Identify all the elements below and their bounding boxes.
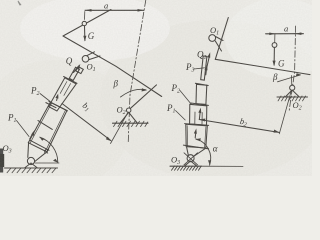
inner wall lines of outer tube (right) — [186, 126, 188, 147]
scan dark edge blob bottom-left — [0, 149, 3, 173]
clevis cross lines O3 (right) — [184, 153, 198, 165]
force P1 arrow inside outer tube (left) — [30, 132, 34, 139]
extension line from a down to G point (left) — [84, 12, 86, 20]
force G arrow (left) — [84, 26, 86, 41]
angle alpha arc (left) — [40, 137, 58, 162]
pivot circle O1 (left) — [82, 56, 89, 63]
stage-3 top cap (right) — [195, 83, 208, 85]
internal piston cross-line mid (left) — [38, 121, 52, 130]
taper to pivot (right) — [187, 147, 189, 156]
force P2 arrow inside stage-2 (left) — [57, 97, 58, 101]
inner wall lines inside stage-2 (right) — [194, 112, 196, 124]
link O2 to boom (right) — [290, 76, 292, 86]
angle alpha arc (right) — [196, 139, 211, 165]
load point circle G (left) — [82, 21, 86, 25]
dimension a (left) — [85, 9, 144, 11]
stage-2 top cap (left) — [64, 77, 77, 84]
scan shading patches — [100, 20, 320, 180]
piston rod (right) — [201, 56, 207, 80]
support triangle O3 (left) — [25, 163, 38, 168]
support triangle O2 (right) — [285, 90, 299, 97]
internal head cross-line near bottom (left) — [30, 140, 49, 150]
load point circle G (right) — [272, 43, 277, 48]
perpendicular foot line from O2 (left) — [111, 113, 128, 144]
force Q1 arrow (right) — [206, 57, 209, 71]
boom line (right) — [215, 59, 310, 74]
bracket O1 to mast (right) — [216, 37, 224, 41]
pivot circle O2 (right) — [290, 85, 295, 90]
vertical dash-dot axis through O2 (left) — [128, 0, 146, 143]
alpha baseline (right) — [202, 165, 244, 167]
rod clevis (left) — [76, 67, 84, 74]
taper to pivot (left) — [27, 142, 30, 157]
stage-2 tube (left) — [49, 78, 77, 111]
ground hatching O3 (right) — [172, 166, 202, 170]
telescopic cylinder (left): outer tube (converging to pivot) — [28, 102, 67, 152]
support triangle O2 (left) — [120, 112, 137, 123]
leader P2 (left) — [40, 94, 50, 102]
leader P1 (left) — [17, 121, 30, 137]
force P2 arrow inside stage-2 (right) — [198, 111, 201, 120]
dimension b1 (left) — [62, 104, 111, 141]
piston rod (left) — [69, 67, 79, 80]
mast line (right) — [215, 18, 228, 60]
bracket O1 to boom (left) — [87, 52, 95, 56]
stage-2 tube (right) — [190, 104, 207, 125]
stage-2 top cap (right) — [191, 103, 209, 105]
inner wall lines of outer tube (left) — [30, 103, 52, 143]
leader P3 (right) — [194, 68, 205, 69]
ground line O2 (left) — [113, 122, 149, 124]
internal piston cross-line at cap (left) — [46, 103, 56, 108]
force P3 arrow inside rod (right) — [205, 68, 208, 75]
rod extension visible inside stage-2 (left) — [60, 82, 67, 94]
force P1 arrow inside outer tube (right) — [194, 132, 197, 138]
outer tube top cap (left) — [49, 101, 68, 111]
ground line O3 (left) — [5, 167, 58, 169]
perpendicular strut from O2 (right) — [279, 90, 291, 134]
ground line O3 (right) — [170, 165, 202, 167]
angle beta arc (right) — [278, 75, 301, 82]
outer top cap (right) — [185, 124, 209, 126]
ground hatching O2 (right) — [278, 96, 306, 101]
force Q arrow (left) — [74, 66, 79, 73]
stage-3 tube (right) — [196, 84, 207, 104]
ground hatching O3 (left) — [7, 168, 56, 173]
ground hatching O2 (left) — [114, 121, 148, 126]
dimension b2 (right) — [199, 120, 279, 133]
ground line O2 (right) — [277, 96, 308, 98]
telescopic cylinder (right): outer tube — [186, 124, 208, 148]
boom main line (left) — [63, 36, 162, 97]
strut O2 to boom (left) — [131, 85, 157, 108]
angle beta arc (left) — [121, 89, 147, 97]
pivot circle O1 (right) — [209, 35, 216, 42]
upper arm of boom (left) — [63, 10, 111, 37]
outer bottom cap (right) — [183, 145, 208, 149]
force G arrow (right) — [273, 48, 275, 66]
paper background — [0, 0, 312, 176]
support triangle O3 (right) — [184, 161, 197, 166]
ground pivot O3 (left): circle — [27, 157, 34, 164]
leader P1 (right) — [176, 111, 186, 121]
scan artifact top-left tick — [18, 1, 22, 6]
vertical dash-dot axis (right) — [289, 26, 296, 112]
leader P2 (right) — [180, 91, 192, 105]
alpha baseline (left) — [35, 162, 59, 164]
dimension a (right) — [266, 33, 295, 35]
extension line to G (right) — [274, 34, 276, 43]
pivot circle O2 (left) — [127, 108, 131, 112]
ground pivot O3 (right): circle — [187, 155, 194, 162]
